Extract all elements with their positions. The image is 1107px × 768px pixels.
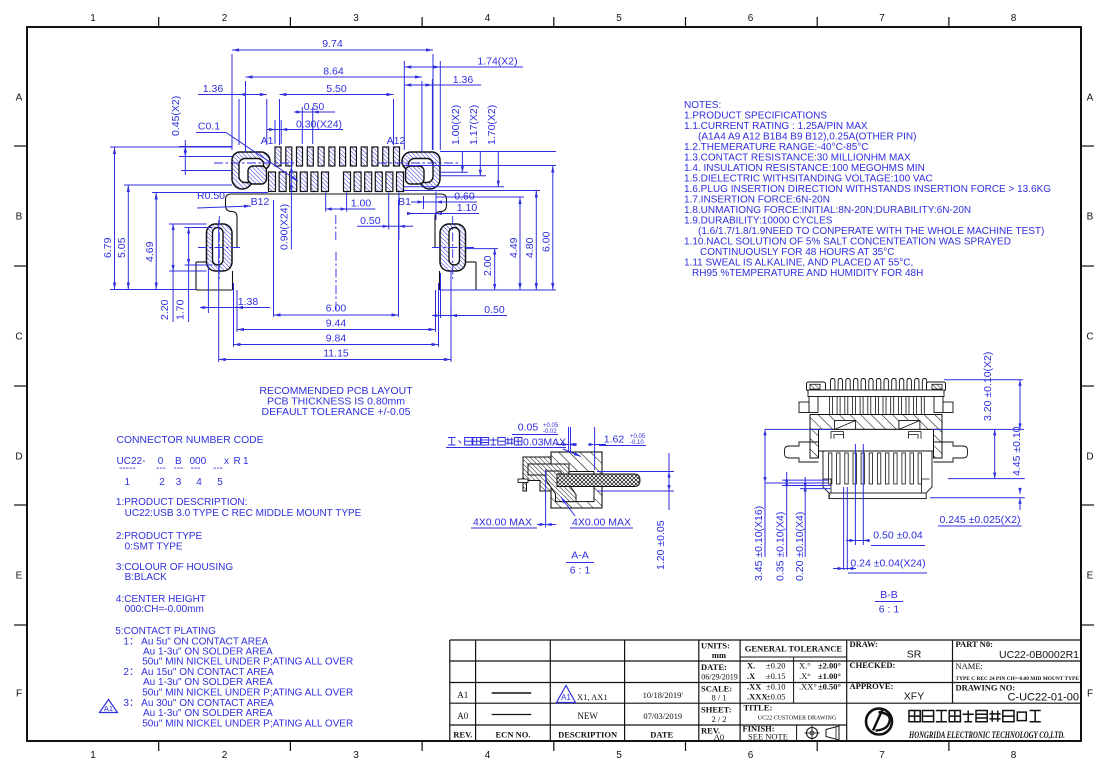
svg-text:1: 1 bbox=[90, 750, 96, 761]
svg-text:5.05: 5.05 bbox=[116, 237, 128, 258]
svg-text:UC22 CUSTOMER DRAWING: UC22 CUSTOMER DRAWING bbox=[758, 716, 837, 722]
svg-text:1.PRODUCT SPECIFICATIONS: 1.PRODUCT SPECIFICATIONS bbox=[684, 111, 827, 122]
dim 1.74(X2) bbox=[403, 61, 405, 150]
svg-text:±0.05: ±0.05 bbox=[766, 692, 786, 702]
svg-text:1.00(X2): 1.00(X2) bbox=[450, 105, 462, 145]
svg-text:A1: A1 bbox=[561, 693, 571, 702]
svg-text:1.00: 1.00 bbox=[351, 197, 372, 209]
B-B hatched shell flange bbox=[810, 415, 942, 430]
svg-text:6: 6 bbox=[748, 750, 754, 761]
svg-text:B1: B1 bbox=[398, 196, 411, 208]
svg-text:1.36: 1.36 bbox=[203, 83, 224, 95]
dim 8.64 bbox=[245, 81, 247, 152]
svg-text:A-A: A-A bbox=[571, 550, 589, 562]
svg-text:F: F bbox=[1087, 689, 1093, 700]
svg-text:2: 2 bbox=[159, 477, 165, 488]
svg-text:XFY: XFY bbox=[904, 691, 924, 703]
dims 0.60 / 1.10 right bbox=[411, 201, 452, 203]
svg-text:SEE NOTE: SEE NOTE bbox=[748, 732, 788, 742]
bottom dims 6.00 9.44 9.84 11.15 bbox=[273, 200, 275, 317]
svg-text:4.45 ±0.10: 4.45 ±0.10 bbox=[1011, 426, 1023, 476]
B-B small side blocks bbox=[799, 402, 809, 413]
oval pad right bbox=[440, 224, 466, 271]
svg-text:X1, AX1: X1, AX1 bbox=[577, 692, 608, 702]
svg-text:1.7.INSERTION FORCE:6N-20N: 1.7.INSERTION FORCE:6N-20N bbox=[684, 195, 830, 206]
company logo bbox=[866, 709, 892, 735]
svg-text:1.74(X2): 1.74(X2) bbox=[477, 56, 517, 68]
svg-text:1.4. INSULATION RESISTANCE:100: 1.4. INSULATION RESISTANCE:100 MEGOHMS M… bbox=[684, 163, 925, 174]
svg-text:PART N0:: PART N0: bbox=[956, 639, 994, 649]
svg-text:DATE: DATE bbox=[650, 730, 673, 740]
svg-text:1.3.CONTACT RESISTANCE:30 MILL: 1.3.CONTACT RESISTANCE:30 MILLIONHM MAX bbox=[684, 153, 911, 164]
svg-text:3.45 ±0.10(X16): 3.45 ±0.10(X16) bbox=[753, 506, 765, 581]
A-A left housing block (dense hatch) bbox=[523, 457, 551, 491]
svg-text:SHEET:: SHEET: bbox=[701, 705, 732, 715]
B-B carrier band bbox=[808, 390, 944, 397]
svg-text:B: B bbox=[1087, 212, 1094, 223]
dim 1.36 right bbox=[431, 79, 433, 150]
svg-text:3: 3 bbox=[353, 750, 359, 761]
left vertical dims 6.79 5.05 4.69 bbox=[110, 146, 232, 148]
svg-text:11.15: 11.15 bbox=[323, 348, 349, 360]
svg-text:06/29/2019: 06/29/2019 bbox=[701, 673, 737, 682]
svg-text:6.00: 6.00 bbox=[326, 303, 347, 315]
svg-text:2.00: 2.00 bbox=[482, 255, 494, 276]
svg-text:---: --- bbox=[213, 463, 223, 474]
svg-text:8: 8 bbox=[1011, 750, 1017, 761]
B-B left dims 3.45 0.35 0.20 bbox=[765, 428, 833, 430]
B-B dim 0.245 bbox=[1019, 488, 1021, 494]
A-A middle contact block bbox=[528, 464, 569, 475]
svg-text:1.10: 1.10 bbox=[457, 202, 478, 214]
svg-text:A0: A0 bbox=[714, 732, 724, 742]
svg-text:C: C bbox=[1086, 332, 1093, 343]
svg-text:RH95 %TEMPERATURE AND HUMIDITY: RH95 %TEMPERATURE AND HUMIDITY FOR 48H bbox=[692, 268, 923, 279]
oval pad left bbox=[207, 224, 233, 271]
svg-text:1.9.DURABILITY:10000 CYCLES: 1.9.DURABILITY:10000 CYCLES bbox=[684, 216, 833, 227]
B-B comb teeth bbox=[830, 397, 833, 415]
svg-text:1.38: 1.38 bbox=[238, 296, 259, 308]
svg-text:A0: A0 bbox=[457, 711, 468, 721]
svg-text:D: D bbox=[1086, 452, 1093, 463]
svg-text:1.70(X2): 1.70(X2) bbox=[486, 105, 498, 145]
svg-text:1.70: 1.70 bbox=[175, 299, 187, 320]
svg-text:X.°: X.° bbox=[799, 661, 811, 671]
svg-text:X.: X. bbox=[747, 661, 755, 671]
bottom row pads B12-B1 (two groups) bbox=[269, 172, 276, 192]
svg-text:NAME:: NAME: bbox=[956, 661, 983, 671]
zone tick marks and labels bbox=[158, 17, 160, 27]
svg-text:2: 2 bbox=[222, 13, 228, 24]
svg-text:1.36: 1.36 bbox=[453, 74, 474, 86]
svg-text:4: 4 bbox=[485, 13, 491, 24]
svg-text:CONNECTOR NUMBER CODE: CONNECTOR NUMBER CODE bbox=[117, 435, 264, 446]
svg-text:1: 1 bbox=[90, 13, 96, 24]
svg-text:3.20 ±0.10(X2): 3.20 ±0.10(X2) bbox=[982, 352, 994, 421]
dim 0.45(X2) left bbox=[179, 146, 232, 148]
svg-text:DATE:: DATE: bbox=[701, 662, 727, 672]
svg-text:6 : 1: 6 : 1 bbox=[570, 565, 591, 577]
B-B lower skirt and legs bbox=[823, 451, 932, 499]
svg-text:NEW: NEW bbox=[577, 711, 598, 721]
svg-text:1.20 ±0.05: 1.20 ±0.05 bbox=[655, 520, 667, 570]
svg-text:1.62: 1.62 bbox=[604, 434, 625, 446]
dim 0.50 mid bbox=[388, 193, 390, 230]
svg-text:50u" MIN NICKEL UNDER P;ATING: 50u" MIN NICKEL UNDER P;ATING ALL OVER bbox=[142, 657, 353, 668]
svg-text:APPROVE:: APPROVE: bbox=[850, 681, 894, 691]
svg-text:10/18/2019': 10/18/2019' bbox=[643, 690, 684, 700]
svg-text:4: 4 bbox=[196, 477, 202, 488]
svg-text:4X0.00 MAX: 4X0.00 MAX bbox=[572, 517, 631, 529]
svg-text:.X°: .X° bbox=[799, 671, 811, 681]
svg-text:5.50: 5.50 bbox=[326, 83, 347, 95]
svg-text:4.80: 4.80 bbox=[524, 237, 536, 258]
svg-text:07/03/2019: 07/03/2019 bbox=[643, 711, 682, 721]
svg-text:1:PRODUCT DESCRIPTION:: 1:PRODUCT DESCRIPTION: bbox=[116, 497, 248, 508]
svg-text:±0.10: ±0.10 bbox=[766, 682, 786, 692]
svg-text:7: 7 bbox=[879, 750, 885, 761]
svg-text:CONTINUOUSLY FOR 48 HOURS AT 3: CONTINUOUSLY FOR 48 HOURS AT 35°C bbox=[700, 247, 894, 258]
A-A shell (sparse hatch) bbox=[551, 452, 602, 508]
revision triangle A1 marker (notes) bbox=[100, 700, 118, 713]
svg-text:x: x bbox=[224, 456, 229, 467]
svg-text:0.35 ±0.10(X4): 0.35 ±0.10(X4) bbox=[775, 512, 787, 581]
svg-text:NOTES:: NOTES: bbox=[684, 100, 721, 111]
svg-text:Au 1-3u" ON SOLDER AREA: Au 1-3u" ON SOLDER AREA bbox=[143, 677, 273, 688]
svg-text:1.8.UNMATIONG FORCE:INITIAL:8N: 1.8.UNMATIONG FORCE:INITIAL:8N-20N;DURAB… bbox=[684, 205, 971, 216]
svg-text:±0.15: ±0.15 bbox=[766, 671, 786, 681]
right vertical dims 1.00(X2) 1.17(X2) 1.70(X2) bbox=[440, 151, 556, 153]
svg-text:A: A bbox=[16, 93, 23, 104]
dim 0.30(X24) bbox=[274, 120, 276, 144]
svg-text:2.20: 2.20 bbox=[159, 299, 171, 320]
svg-text:TITLE:: TITLE: bbox=[744, 703, 773, 713]
svg-text:.XX°: .XX° bbox=[799, 682, 817, 692]
svg-text:9.84: 9.84 bbox=[326, 333, 347, 345]
svg-text:1.5.DIELECTRIC WITHSITANDING V: 1.5.DIELECTRIC WITHSITANDING VOLTAGE:100… bbox=[684, 174, 933, 185]
svg-text:1: 1 bbox=[125, 477, 131, 488]
svg-text:A1: A1 bbox=[104, 704, 113, 713]
svg-text:3: 3 bbox=[353, 13, 359, 24]
svg-text:-----: ----- bbox=[119, 463, 136, 474]
svg-text:UC22-0B0002R1: UC22-0B0002R1 bbox=[999, 649, 1079, 661]
top row pads A1-A12 bbox=[275, 147, 281, 166]
B-B end tabs bbox=[807, 382, 826, 391]
svg-text:±2.00°: ±2.00° bbox=[818, 661, 841, 671]
B-B shell side columns bbox=[810, 429, 819, 458]
svg-text:2 / 2: 2 / 2 bbox=[711, 714, 726, 724]
dim 0.50 top bbox=[301, 107, 303, 144]
svg-text:---: --- bbox=[156, 463, 166, 474]
svg-text:DEFAULT TOLERANCE +/-0.05: DEFAULT TOLERANCE +/-0.05 bbox=[262, 406, 411, 418]
svg-text:6.79: 6.79 bbox=[102, 237, 114, 258]
svg-text:E: E bbox=[16, 571, 23, 582]
svg-text:50u" MIN NICKEL UNDER P;ATING: 50u" MIN NICKEL UNDER P;ATING ALL OVER bbox=[142, 688, 353, 699]
svg-text:CHECKED:: CHECKED: bbox=[850, 660, 896, 670]
svg-text:D: D bbox=[15, 452, 22, 463]
B-B right dims 3.20 4.45 bbox=[944, 379, 1023, 381]
svg-text:1.10.NACL SOLUTION OF 5% SALT: 1.10.NACL SOLUTION OF 5% SALT CONCENTEAT… bbox=[684, 237, 1011, 248]
svg-text:0.05: 0.05 bbox=[518, 422, 539, 434]
shield pad left (hatched comma shape) bbox=[232, 152, 270, 189]
dim 0.50 bottom right bbox=[440, 273, 442, 318]
B-B side arms bbox=[785, 442, 819, 462]
B-B top pin loops bbox=[831, 379, 835, 391]
svg-text:TYPE C REC 24 PIN CH=-0.00 MID: TYPE C REC 24 PIN CH=-0.00 MID MOUNT TYP… bbox=[956, 676, 1080, 682]
svg-text:±0.20: ±0.20 bbox=[766, 661, 786, 671]
svg-text:4: 4 bbox=[485, 750, 491, 761]
svg-text:1.17(X2): 1.17(X2) bbox=[468, 105, 480, 145]
projection symbols bbox=[807, 728, 818, 739]
svg-text:---: --- bbox=[174, 463, 184, 474]
revision triangle in table bbox=[557, 686, 576, 703]
svg-text:R: R bbox=[234, 456, 241, 467]
A-A contact pin bar (cross hatch) bbox=[557, 474, 640, 487]
svg-text:SR: SR bbox=[907, 649, 922, 661]
svg-text:8: 8 bbox=[1011, 13, 1017, 24]
B-B dim 0.24 bbox=[843, 487, 845, 570]
svg-text:7: 7 bbox=[879, 13, 885, 24]
svg-text:.X: .X bbox=[747, 671, 756, 681]
A-A diagonal contact member bbox=[546, 471, 576, 502]
svg-text:0.50 ±0.04: 0.50 ±0.04 bbox=[873, 530, 923, 542]
svg-text:C0.1: C0.1 bbox=[198, 121, 220, 133]
company chinese name (faux glyphs) bbox=[909, 711, 920, 722]
dim 1.38 bbox=[207, 266, 209, 313]
dim 0.90(X24) vertical bbox=[290, 160, 292, 249]
svg-text:1.2.THEMERATURE RANGE:-40°C-85: 1.2.THEMERATURE RANGE:-40°C-85°C bbox=[684, 142, 869, 153]
svg-text:0.50: 0.50 bbox=[484, 304, 505, 316]
svg-text:C-UC22-01-00: C-UC22-01-00 bbox=[1007, 692, 1079, 704]
svg-text:000:CH=-0.00mm: 000:CH=-0.00mm bbox=[125, 604, 204, 615]
svg-text:A1: A1 bbox=[261, 135, 274, 147]
svg-text:3: 3 bbox=[176, 477, 182, 488]
B-B bottom plate bbox=[829, 493, 926, 499]
svg-text:0.30(X24): 0.30(X24) bbox=[296, 119, 342, 131]
center lines (dash-dot) bbox=[214, 162, 294, 164]
svg-text:HONGRIDA ELECTRONIC TECHNOLOGY: HONGRIDA ELECTRONIC TECHNOLOGY CO,LTD. bbox=[908, 730, 1065, 740]
svg-text:4.69: 4.69 bbox=[144, 241, 156, 262]
svg-text:C: C bbox=[15, 332, 22, 343]
svg-text:DRAWING NO:: DRAWING NO: bbox=[956, 683, 1016, 693]
svg-text:DRAW:: DRAW: bbox=[850, 639, 879, 649]
A-A dim 4X0.00 MAX left bbox=[545, 469, 547, 528]
svg-text:2:PRODUCT TYPE: 2:PRODUCT TYPE bbox=[116, 531, 203, 542]
svg-text:1.11 SWEAL IS ALKALINE, AND PL: 1.11 SWEAL IS ALKALINE, AND PLACED AT 55… bbox=[684, 258, 913, 269]
svg-text:±1.00°: ±1.00° bbox=[818, 671, 841, 681]
A-A solder tail tab bbox=[518, 479, 528, 483]
svg-text:(A1A4 A9 A12 B1B4 B9 B12),0.25: (A1A4 A9 A12 B1B4 B9 B12),0.25A(OTHER PI… bbox=[698, 132, 916, 143]
svg-text:5: 5 bbox=[616, 750, 622, 761]
svg-text:0.90(X24): 0.90(X24) bbox=[279, 204, 291, 250]
A-A dim 1.20 +-0.05 bbox=[597, 471, 674, 473]
dim 9.74 bbox=[231, 54, 233, 150]
svg-text:0.24 ±0.04(X24): 0.24 ±0.04(X24) bbox=[850, 558, 925, 570]
svg-text:---: --- bbox=[191, 463, 201, 474]
svg-text:2: 2 bbox=[222, 750, 228, 761]
svg-text:6: 6 bbox=[748, 13, 754, 24]
svg-text:9.44: 9.44 bbox=[326, 318, 347, 330]
svg-text:5:CONTACT PLATING: 5:CONTACT PLATING bbox=[115, 626, 216, 637]
svg-text:0.50: 0.50 bbox=[304, 101, 325, 113]
svg-text:R0.50: R0.50 bbox=[197, 190, 225, 202]
dim 5.50 bbox=[279, 99, 281, 145]
svg-text:E: E bbox=[1087, 571, 1094, 582]
svg-text:.XX: .XX bbox=[747, 682, 762, 692]
PCB footprint view: connector body outline bbox=[226, 194, 447, 225]
svg-text:UNITS:: UNITS: bbox=[701, 641, 730, 651]
svg-text:6 : 1: 6 : 1 bbox=[879, 604, 900, 616]
dims 2.20 1.70 (oval pad) bbox=[169, 223, 207, 225]
svg-text:1.1.CURRENT RATING : 1.25A/PIN: 1.1.CURRENT RATING : 1.25A/PIN MAX bbox=[684, 121, 868, 132]
svg-text:1.6.PLUG INSERTION DIRECTION W: 1.6.PLUG INSERTION DIRECTION WITHSTANDS … bbox=[684, 184, 1051, 195]
svg-text:0.50: 0.50 bbox=[360, 215, 381, 227]
svg-text:B: B bbox=[16, 212, 23, 223]
svg-text:UC22:USB 3.0 TYPE C REC MIDDLE: UC22:USB 3.0 TYPE C REC MIDDLE MOUNT TYP… bbox=[125, 508, 362, 519]
svg-text:(1.6/1.7/1.8/1.9NEED TO CONPER: (1.6/1.7/1.8/1.9NEED TO CONPERATE WITH T… bbox=[698, 226, 1044, 237]
svg-text:A: A bbox=[1087, 93, 1094, 104]
svg-text:±0.50°: ±0.50° bbox=[818, 682, 841, 692]
svg-text:8.64: 8.64 bbox=[323, 66, 344, 78]
svg-text:1: 1 bbox=[243, 456, 249, 467]
svg-text:6.00: 6.00 bbox=[541, 231, 553, 252]
svg-text:B-B: B-B bbox=[880, 589, 898, 601]
body side walls and bottom shelf bbox=[236, 225, 238, 248]
B-B dim 0.50 bbox=[854, 444, 856, 545]
dim 1.36 left bbox=[238, 99, 240, 145]
svg-text:F: F bbox=[16, 689, 22, 700]
svg-text:REV.: REV. bbox=[453, 730, 472, 740]
svg-text:mm: mm bbox=[712, 650, 726, 660]
svg-text:4.49: 4.49 bbox=[508, 237, 520, 258]
svg-text:Au 1-3u" ON SOLDER AREA: Au 1-3u" ON SOLDER AREA bbox=[143, 708, 273, 719]
title block grid bbox=[450, 639, 1081, 641]
svg-text:B12: B12 bbox=[251, 196, 270, 208]
shield pad right (hatched comma shape) bbox=[402, 152, 440, 189]
svg-text:GENERAL TOLERANCE: GENERAL TOLERANCE bbox=[745, 644, 843, 654]
svg-text:A1: A1 bbox=[457, 690, 468, 700]
svg-text:9.74: 9.74 bbox=[322, 38, 343, 50]
svg-text:5: 5 bbox=[616, 13, 622, 24]
dim 1.00 center bbox=[325, 193, 327, 212]
B-B body box bbox=[819, 429, 934, 451]
svg-text:0.20 ±0.10(X4): 0.20 ±0.10(X4) bbox=[794, 512, 806, 581]
svg-text:4X0.00 MAX: 4X0.00 MAX bbox=[473, 517, 532, 529]
svg-text:8 / 1: 8 / 1 bbox=[711, 693, 726, 703]
svg-text:A12: A12 bbox=[387, 135, 406, 147]
svg-text:ECN NO.: ECN NO. bbox=[496, 730, 531, 740]
A-A note: chinese shell gap note 0.03MAX bbox=[448, 438, 456, 446]
svg-text:50u" MIN NICKEL UNDER P;ATING: 50u" MIN NICKEL UNDER P;ATING ALL OVER bbox=[142, 719, 353, 730]
svg-text:5: 5 bbox=[217, 477, 223, 488]
svg-text:0.03MAX: 0.03MAX bbox=[523, 437, 566, 449]
B-B corner hooks bbox=[823, 479, 930, 493]
svg-text:DESCRIPTION: DESCRIPTION bbox=[558, 730, 618, 740]
svg-text:0.245 ±0.025(X2): 0.245 ±0.025(X2) bbox=[939, 514, 1020, 526]
svg-text:0.45(X2): 0.45(X2) bbox=[170, 96, 182, 136]
svg-text:0:SMT TYPE: 0:SMT TYPE bbox=[125, 542, 183, 553]
svg-text:B:BLACK: B:BLACK bbox=[125, 572, 168, 583]
right vertical dims 2.00 4.49 4.80 6.00 bbox=[466, 248, 498, 250]
